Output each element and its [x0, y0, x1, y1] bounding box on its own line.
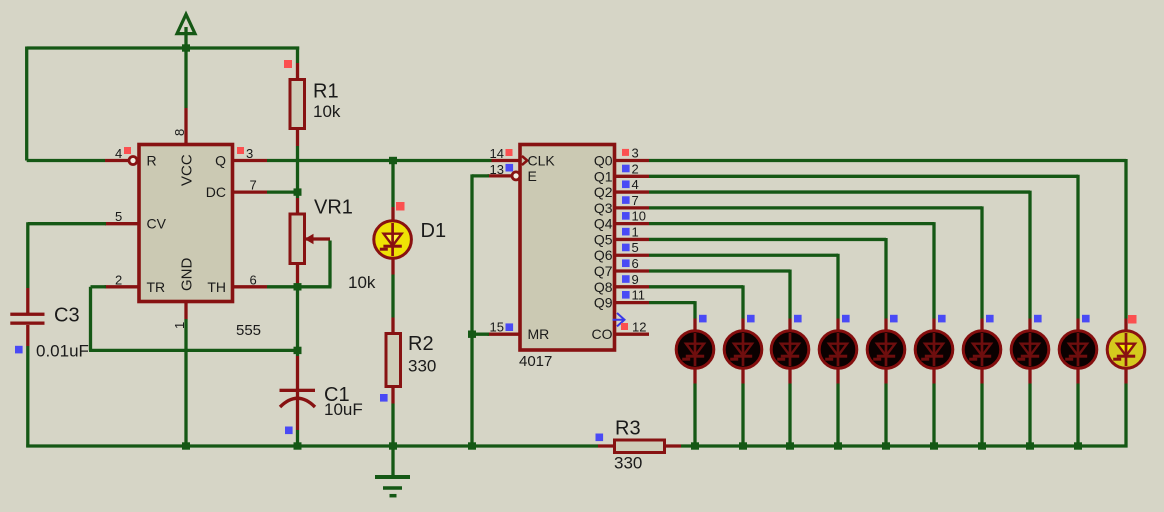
- junction DC node: [294, 188, 302, 195]
- wire VR1 top lead: [296, 192, 299, 198]
- 4017 pin 13 E inversion bubble: [512, 172, 520, 180]
- Q6 net marker (blue/low): [622, 244, 630, 252]
- junction rail / LED column x=743: [739, 442, 747, 449]
- wire 4017 Q1 output run: [616, 175, 649, 178]
- svg-text:2: 2: [115, 272, 122, 287]
- D1 top net marker (red/high): [396, 202, 405, 211]
- wire C1 bottom lead: [296, 391, 299, 430]
- wire 4017 Q9 output run: [616, 301, 649, 304]
- wire R1 top lead from rail: [296, 47, 299, 64]
- svg-text:10uF: 10uF: [324, 400, 363, 419]
- svg-text:R: R: [147, 153, 157, 169]
- wire 4017 Q7 output run: [616, 269, 649, 272]
- wire LED D2 bottom lead to rail: [693, 367, 696, 384]
- junction rail / LED column x=1078: [1074, 442, 1082, 449]
- wire Q6 vertical drop to LED: [836, 254, 839, 319]
- wire LED D6 bottom lead to rail: [884, 367, 887, 384]
- wire TH pin 6: [234, 285, 267, 288]
- svg-text:2: 2: [632, 161, 639, 176]
- svg-text:DC: DC: [206, 184, 226, 200]
- wire D1 to R2: [391, 257, 394, 275]
- junction VCC rail / pin 8: [182, 44, 190, 51]
- resistor R3 body: [615, 440, 665, 453]
- wire bottom ground rail right: [681, 444, 1128, 447]
- svg-text:4: 4: [115, 146, 122, 161]
- svg-text:7: 7: [250, 178, 257, 193]
- 555 pin 4 R inversion bubble: [129, 157, 137, 165]
- svg-text:7: 7: [632, 193, 639, 208]
- svg-text:VR1: VR1: [314, 197, 353, 219]
- svg-text:4017: 4017: [519, 353, 552, 370]
- R1 top net marker (red/high): [284, 60, 292, 68]
- junction rail / ground: [389, 442, 397, 449]
- svg-text:4: 4: [632, 177, 639, 192]
- wire 4017 CO pin 12 stub: [616, 333, 649, 336]
- wire 4017 Q3 output run: [616, 206, 649, 209]
- svg-text:VCC: VCC: [179, 154, 196, 186]
- wire 4017 Q6 output run: [616, 254, 649, 257]
- svg-text:C3: C3: [54, 305, 80, 327]
- LED D4 (off): [771, 331, 809, 369]
- LED column 695 net marker (blue/low): [699, 315, 707, 323]
- LED column 743 net marker (blue/low): [747, 315, 755, 323]
- wire LED D4 bottom lead to rail: [788, 367, 791, 384]
- C3 net marker (blue/low): [15, 346, 23, 354]
- LED D7 (off): [915, 331, 953, 369]
- svg-text:6: 6: [632, 256, 639, 271]
- wire 4017 MR pin 15: [488, 333, 520, 336]
- svg-text:CLK: CLK: [528, 153, 556, 169]
- wire LED D5 bottom lead to rail: [836, 367, 839, 384]
- wire 4017 Q5 output run: [616, 238, 649, 241]
- wire VR1 bottom lead: [296, 264, 299, 284]
- Q0 net marker (red/high): [622, 149, 629, 156]
- svg-text:Q6: Q6: [594, 247, 613, 263]
- svg-text:0.01uF: 0.01uF: [36, 342, 89, 361]
- LED D8 (off): [963, 331, 1001, 369]
- Q7 net marker (blue/low): [622, 259, 630, 267]
- Q3 net marker (blue/low): [622, 196, 630, 204]
- LED column 838 net marker (blue/low): [842, 315, 850, 323]
- svg-text:15: 15: [490, 320, 504, 335]
- wire LED D9 bottom lead to rail: [1028, 367, 1031, 384]
- junction rail / 555 GND: [182, 442, 190, 449]
- wire ground symbol stub: [391, 446, 394, 476]
- op-amp / timer U1 555 body: [139, 145, 233, 302]
- svg-text:CV: CV: [147, 216, 167, 232]
- capacitor C1 top plate: [280, 389, 316, 392]
- svg-text:R1: R1: [313, 81, 339, 103]
- R2 net marker (blue/low): [380, 394, 388, 402]
- pin 14 net marker (red/high): [506, 149, 513, 156]
- wire R1 bottom lead: [296, 129, 299, 146]
- svg-text:Q: Q: [215, 153, 226, 169]
- wire C1 top lead: [296, 350, 299, 356]
- wire VCC vertical to 555 pin 8: [184, 48, 187, 108]
- svg-text:10k: 10k: [348, 273, 376, 292]
- LED D11 net marker (red/high): [1128, 315, 1137, 324]
- resistor R1 body: [290, 80, 305, 129]
- svg-text:GND: GND: [179, 258, 196, 292]
- 4017 CO output marker: [613, 313, 625, 326]
- Q1 net marker (blue/low): [622, 165, 630, 173]
- pin 13 net marker (blue/low): [506, 164, 514, 172]
- junction E-MR column: [468, 331, 476, 338]
- LED column 1030 net marker (blue/low): [1034, 315, 1042, 323]
- LED D6 (off): [867, 331, 905, 369]
- capacitor C3 top plate: [10, 313, 44, 316]
- potentiometer VR1 wiper arrow: [305, 234, 314, 244]
- svg-text:Q2: Q2: [594, 184, 613, 200]
- wire 555 Q output to 4017 CLK: [234, 159, 267, 162]
- wire Q3 vertical drop to LED: [980, 206, 983, 318]
- wire LED D10 bottom lead to rail: [1076, 367, 1079, 384]
- wire 555 GND pin 1 to rail: [184, 303, 187, 319]
- wire R pin 4 horizontal: [27, 159, 105, 162]
- wire C3 bottom lead: [26, 325, 29, 346]
- ground symbol: [375, 477, 410, 496]
- svg-text:Q0: Q0: [594, 153, 613, 169]
- LED column 982 net marker (blue/low): [986, 315, 994, 323]
- R3 net marker (blue/low): [596, 434, 604, 442]
- wire LED D8 bottom lead to rail: [980, 367, 983, 384]
- svg-text:11: 11: [632, 288, 646, 303]
- svg-text:E: E: [528, 168, 537, 184]
- power symbol VCC arrow: [177, 14, 195, 33]
- LED D5 (off): [819, 331, 857, 369]
- wire CV down to C3: [26, 222, 29, 288]
- junction rail / C1: [294, 442, 302, 449]
- wire Q1 vertical drop to LED: [1076, 175, 1079, 319]
- wire D1 top from Q line: [391, 161, 394, 208]
- svg-text:D1: D1: [421, 220, 447, 242]
- junction rail / LED column x=1030: [1026, 442, 1034, 449]
- svg-text:CO: CO: [592, 326, 613, 342]
- junction rail / E column: [468, 442, 476, 449]
- svg-text:Q7: Q7: [594, 263, 613, 279]
- svg-text:R2: R2: [408, 333, 434, 355]
- Q5 net marker (blue/low): [622, 228, 630, 236]
- wire Q2 vertical drop to LED: [1028, 191, 1031, 319]
- wire bottom ground rail left: [26, 444, 598, 447]
- svg-text:330: 330: [614, 454, 642, 473]
- capacitor C1 curved plate: [280, 398, 315, 407]
- LED D11 (lit): [1107, 331, 1145, 369]
- svg-text:TH: TH: [207, 279, 226, 295]
- svg-text:9: 9: [632, 272, 639, 287]
- LED column 790 net marker (blue/low): [794, 315, 802, 323]
- wire R3 left stub: [598, 444, 615, 447]
- C1 net marker (blue/low): [285, 427, 293, 435]
- svg-text:1: 1: [172, 322, 187, 329]
- svg-text:330: 330: [408, 357, 436, 376]
- junction rail / LED column x=695: [691, 442, 699, 449]
- wire 4017 Q0 output run: [616, 159, 649, 162]
- wire Q9 vertical drop to LED: [693, 301, 696, 318]
- svg-text:3: 3: [632, 146, 639, 161]
- junction rail / LED column x=838: [834, 442, 842, 449]
- svg-text:12: 12: [632, 320, 646, 335]
- svg-text:5: 5: [632, 240, 639, 255]
- pin 4 net marker (red/high): [124, 147, 131, 154]
- Q9 net marker (blue/low): [622, 291, 630, 299]
- junction TR-C1 node: [294, 347, 302, 354]
- Q2 net marker (blue/low): [622, 180, 630, 188]
- Q4 net marker (blue/low): [622, 212, 630, 220]
- junction rail / LED column x=982: [978, 442, 986, 449]
- wire left vertical to 555 pin R: [25, 47, 28, 161]
- wire VR1 wiper connection: [306, 237, 330, 240]
- junction rail / LED column x=790: [786, 442, 794, 449]
- counter U2 4017 body: [520, 145, 615, 351]
- Q8 net marker (blue/low): [622, 275, 630, 283]
- wire 4017 Q8 output run: [616, 285, 649, 288]
- svg-text:TR: TR: [147, 279, 166, 295]
- LED column 1078 net marker (blue/low): [1082, 315, 1090, 323]
- svg-text:8: 8: [172, 129, 187, 136]
- svg-text:10k: 10k: [313, 102, 341, 121]
- LED D10 (off): [1059, 331, 1097, 369]
- svg-text:Q4: Q4: [594, 216, 613, 232]
- 4017 CLK clock wedge: [522, 156, 527, 165]
- svg-text:R3: R3: [615, 418, 641, 440]
- wire LED D3 bottom lead to rail: [741, 367, 744, 384]
- svg-text:Q5: Q5: [594, 231, 613, 247]
- svg-text:Q3: Q3: [594, 200, 613, 216]
- wire E column down to rail: [470, 174, 473, 446]
- svg-text:1: 1: [632, 224, 639, 239]
- LED D1 (lit, on 555 output): [374, 221, 412, 259]
- capacitor C3 bottom plate: [10, 322, 44, 325]
- svg-text:Q8: Q8: [594, 279, 613, 295]
- wire power arrow stem: [184, 27, 187, 48]
- svg-text:3: 3: [246, 146, 253, 161]
- wire R3 right stub: [665, 444, 682, 447]
- svg-text:MR: MR: [528, 326, 550, 342]
- wire CV pin 5 horizontal: [105, 222, 139, 225]
- LED column 934 net marker (blue/low): [938, 315, 946, 323]
- LED D3 (off): [724, 331, 762, 369]
- wire LED D7 bottom lead to rail: [932, 367, 935, 384]
- wire Q8 vertical drop to LED: [741, 285, 744, 318]
- svg-text:13: 13: [490, 162, 504, 177]
- svg-text:Q1: Q1: [594, 168, 613, 184]
- wire LED D11 bottom lead to rail: [1124, 367, 1127, 384]
- wire 4017 Q4 output run: [616, 222, 649, 225]
- pin 15 net marker (blue/low): [506, 323, 514, 331]
- svg-text:6: 6: [250, 272, 257, 287]
- junction TH node: [294, 283, 302, 290]
- wire TR pin 2: [105, 285, 138, 288]
- wire VCC top rail: [27, 46, 300, 49]
- junction rail / LED column x=886: [882, 442, 890, 449]
- wire TR down and across to C1 node: [89, 287, 92, 351]
- LED column 886 net marker (blue/low): [890, 315, 898, 323]
- svg-text:5: 5: [115, 209, 122, 224]
- wire 4017 E pin 13: [488, 174, 512, 177]
- resistor R2 body: [386, 334, 401, 387]
- wire Q7 vertical drop to LED: [788, 270, 791, 319]
- wire Q5 vertical drop to LED: [884, 238, 887, 319]
- svg-text:14: 14: [490, 146, 504, 161]
- wire Q4 vertical drop to LED: [932, 222, 935, 318]
- wire Q0 vertical drop to LED: [1124, 159, 1127, 319]
- LED D9 (off): [1011, 331, 1049, 369]
- wire R2 bottom lead: [391, 387, 394, 404]
- svg-text:555: 555: [236, 322, 261, 339]
- svg-text:10: 10: [632, 209, 646, 224]
- pin 3 net marker (red/high): [237, 147, 244, 154]
- junction Q line / D1: [389, 157, 397, 164]
- svg-text:Q9: Q9: [594, 295, 613, 311]
- wire 4017 Q2 output run: [616, 190, 649, 193]
- CO net marker (red/high): [621, 323, 628, 330]
- LED D2 (off): [676, 331, 714, 369]
- wire DC pin 7: [234, 190, 267, 193]
- junction rail / LED column x=934: [930, 442, 938, 449]
- potentiometer VR1 body: [290, 214, 305, 264]
